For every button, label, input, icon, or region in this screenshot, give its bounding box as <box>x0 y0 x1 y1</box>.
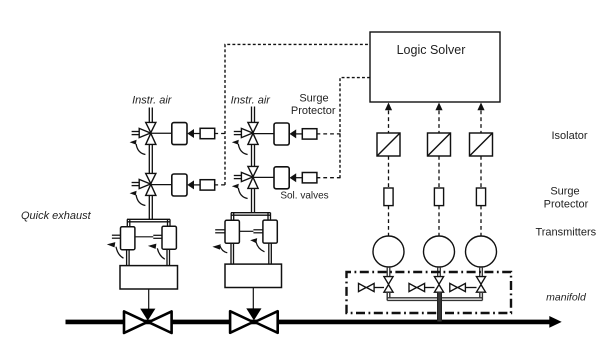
quick exhaust valve train1 left <box>121 227 135 250</box>
isolation valve chain3 (vertical) <box>476 277 485 293</box>
surge protector SP2 <box>434 188 443 206</box>
wire: dashed chain2 surge protector to transmitter <box>438 206 440 236</box>
transmitter T2 <box>424 236 455 267</box>
transmitter T3 <box>466 236 497 267</box>
label Sol. valves <box>280 191 328 202</box>
label Surge Protector (right) <box>544 185 589 210</box>
wire: manifold collection header <box>387 292 482 301</box>
surge protector SP3 <box>476 188 485 206</box>
solenoid pilot valve train2 top <box>232 122 258 154</box>
wire: instrument air drop train 1 <box>149 108 152 123</box>
wire: dashed bus from train 2 solenoids to logic solver <box>340 78 370 178</box>
surge protector SP1 <box>384 188 393 206</box>
label Transmitters <box>535 227 596 239</box>
shutdown valve XV2 on pipe <box>230 308 278 332</box>
wire: stub into train1 left quick exhaust <box>112 235 121 238</box>
wire: actuator stem train 2 <box>252 288 254 309</box>
wire: dashed bus from train 1 solenoids to logic solver <box>225 44 370 185</box>
spring arrow train1 left quick exhaust <box>107 242 124 258</box>
logic solver U1 <box>370 32 500 102</box>
svg-text:Surge: Surge <box>299 93 328 105</box>
wire: train 1 air header (inverted U) <box>127 219 170 226</box>
label Instr. air (train 2) <box>231 95 272 107</box>
shutdown valve XV1 on pipe <box>124 309 172 333</box>
actuator train 2 <box>225 264 282 287</box>
label Surge Protector (top) <box>291 93 336 118</box>
label Quick exhaust <box>21 210 92 222</box>
solenoid coil + surge protector train2 bottom <box>253 167 317 189</box>
wire: dashed chain1 surge protector to transmitter <box>388 206 390 236</box>
label Instr. air (train 1) <box>132 95 173 107</box>
wire: link between train1 quick exhausts <box>135 235 162 238</box>
wire: chain1 transmitter to manifold valve <box>387 267 390 277</box>
wire: train 2 drop below valve 2 <box>252 188 255 213</box>
isolator I2 <box>428 133 451 156</box>
wire: train2 quick exhausts to actuator <box>231 243 271 264</box>
process pipe <box>66 320 550 325</box>
svg-text:Sol. valves: Sol. valves <box>280 191 328 202</box>
isolation valve chain2 (vertical) <box>434 277 443 293</box>
quick exhaust valve train2 right <box>263 220 277 243</box>
wire: dashed stub train1 top to bus <box>214 133 225 135</box>
actuator train 1 <box>120 266 178 289</box>
svg-text:Protector: Protector <box>291 105 336 117</box>
svg-text:Logic Solver: Logic Solver <box>397 43 466 57</box>
wire: dashed arrow chain1 into logic solver <box>385 103 392 134</box>
solenoid coil + surge protector train2 top <box>253 123 317 145</box>
wire: actuator stem train 1 <box>148 289 150 309</box>
vent valve chain2 (horizontal) <box>409 283 435 291</box>
solenoid pilot valve train2 bottom <box>232 166 258 198</box>
svg-text:Instr. air: Instr. air <box>132 95 173 107</box>
wire: dashed arrow chain2 into logic solver <box>435 103 442 134</box>
wire: link between train2 quick exhausts <box>239 230 263 233</box>
spring arrow train2 right quick exhaust <box>250 238 264 252</box>
wire: dashed arrow chain3 into logic solver <box>477 103 484 134</box>
wire: stub into train2 left quick exhaust <box>215 230 225 233</box>
wire: instrument air drop train 2 <box>252 107 255 123</box>
manifold enclosure (dash-dot box) <box>347 272 512 313</box>
wire: chain3 transmitter to manifold valve <box>480 267 483 277</box>
wire: dashed stub train2 bottom to bus <box>317 177 341 179</box>
solenoid coil + surge protector train1 top <box>151 123 215 145</box>
isolator I3 <box>470 133 493 156</box>
transmitter T1 <box>373 236 404 267</box>
solenoid pilot valve train1 top <box>130 122 156 154</box>
wire: chain2 transmitter to manifold valve <box>438 267 441 277</box>
vent valve chain1 (horizontal) <box>359 283 385 291</box>
wire: chain2 impulse line down to pipe <box>438 292 442 322</box>
spring arrow train1 right quick exhaust <box>148 244 165 260</box>
quick exhaust valve train1 right <box>162 226 176 249</box>
svg-text:Isolator: Isolator <box>552 130 588 142</box>
wire: train 1 valve1-valve2 link <box>149 144 152 173</box>
solenoid pilot valve train1 bottom <box>130 173 156 205</box>
svg-text:Quick exhaust: Quick exhaust <box>21 210 92 222</box>
svg-text:Surge: Surge <box>550 185 579 197</box>
isolation valve chain1 (vertical) <box>384 277 393 293</box>
svg-text:Instr. air: Instr. air <box>231 95 272 107</box>
svg-text:Transmitters: Transmitters <box>535 227 596 239</box>
svg-text:manifold: manifold <box>546 291 587 303</box>
quick exhaust valve train2 left <box>225 220 239 243</box>
svg-text:Protector: Protector <box>544 199 589 211</box>
wire: train 1 drop below valve 2 <box>149 195 152 219</box>
pipe flow arrowhead <box>549 316 561 328</box>
wire: train 2 air header (inverted U) <box>231 213 271 221</box>
label Isolator <box>552 130 588 142</box>
solenoid coil + surge protector train1 bottom <box>151 174 215 196</box>
label manifold <box>546 291 587 303</box>
wire: train 2 valve1-valve2 link <box>252 144 255 166</box>
wire: dashed chain3 surge protector to transmitter <box>480 206 482 236</box>
wire: dashed stub train1 bottom to bus <box>214 184 225 186</box>
wire: dashed chain2 isolator to surge protector <box>438 156 440 188</box>
wire: dashed stub train2 top to bus <box>317 133 341 135</box>
isolator I1 <box>377 133 400 156</box>
wire: train1 quick exhausts to actuator <box>127 249 170 265</box>
wire: dashed chain3 isolator to surge protector <box>480 156 482 188</box>
vent valve chain3 (horizontal) <box>450 283 477 291</box>
wire: dashed chain1 isolator to surge protector <box>388 156 390 188</box>
spring arrow train2 left quick exhaust <box>212 244 227 253</box>
